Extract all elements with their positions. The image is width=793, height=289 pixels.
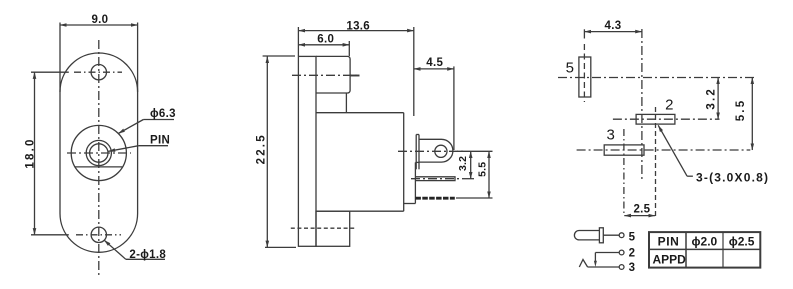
svg-text:2-ϕ1.8: 2-ϕ1.8 bbox=[129, 249, 166, 261]
svg-text:3: 3 bbox=[629, 262, 635, 274]
svg-text:4.5: 4.5 bbox=[426, 57, 443, 69]
svg-text:ϕ2.5: ϕ2.5 bbox=[729, 234, 755, 248]
svg-text:4.3: 4.3 bbox=[605, 20, 622, 32]
svg-text:3-(3.0X0.8): 3-(3.0X0.8) bbox=[696, 171, 769, 185]
svg-text:PIN: PIN bbox=[150, 135, 170, 147]
svg-text:PIN: PIN bbox=[658, 234, 680, 248]
svg-text:2.5: 2.5 bbox=[633, 204, 650, 216]
svg-text:13.6: 13.6 bbox=[346, 21, 370, 33]
svg-text:18.0: 18.0 bbox=[24, 137, 36, 168]
svg-text:5.5: 5.5 bbox=[476, 162, 488, 177]
svg-text:5.5: 5.5 bbox=[735, 99, 747, 122]
svg-text:3.2: 3.2 bbox=[457, 156, 469, 171]
svg-text:9.0: 9.0 bbox=[91, 14, 108, 26]
svg-text:22.5: 22.5 bbox=[255, 133, 267, 164]
svg-text:5: 5 bbox=[629, 231, 636, 243]
svg-text:ϕ6.3: ϕ6.3 bbox=[150, 108, 176, 120]
svg-text:ϕ2.0: ϕ2.0 bbox=[692, 234, 718, 248]
svg-text:2: 2 bbox=[629, 248, 635, 260]
svg-text:APPD: APPD bbox=[653, 253, 687, 267]
svg-text:5: 5 bbox=[566, 60, 574, 77]
svg-text:2: 2 bbox=[665, 97, 673, 114]
svg-text:3.2: 3.2 bbox=[705, 87, 717, 110]
svg-text:3: 3 bbox=[607, 127, 615, 144]
svg-text:6.0: 6.0 bbox=[317, 33, 334, 45]
